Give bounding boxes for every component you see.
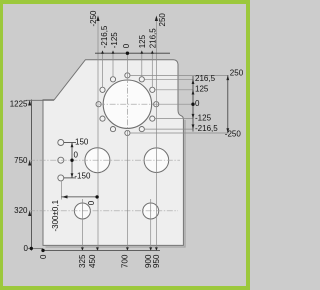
- svg-text:-125: -125: [110, 32, 119, 49]
- small hole 0: [58, 157, 64, 163]
- right arrow -250: [226, 128, 229, 133]
- stub row +150: [64, 142, 76, 144]
- bolt hole S: [125, 130, 130, 135]
- extension line x=150 column stub: [60, 181, 62, 200]
- svg-text:-300±0,1: -300±0,1: [51, 199, 60, 231]
- bore circle: [103, 80, 151, 128]
- extension line row +125: [155, 89, 193, 91]
- green frame: [0, 0, 250, 290]
- small hole +150: [58, 140, 64, 146]
- extension line row -125: [155, 118, 193, 120]
- svg-text:0: 0: [74, 150, 79, 159]
- bolt hole 210deg: [100, 116, 105, 121]
- svg-text:-216,5: -216,5: [195, 124, 218, 133]
- svg-text:0: 0: [87, 200, 96, 205]
- bolt hole N: [125, 73, 130, 78]
- extension line x=+216.5 bolt column: [151, 53, 153, 87]
- top zero dot: [126, 52, 129, 55]
- dim line +/-150: [71, 143, 73, 178]
- svg-text:-125: -125: [195, 114, 212, 123]
- arrow -250 top: [96, 16, 99, 22]
- centerline row 320: [29, 210, 178, 212]
- bolt hole 120deg: [110, 77, 115, 82]
- left chain arrow 750: [28, 160, 31, 166]
- bolt hole 330deg: [150, 116, 155, 121]
- svg-text:0: 0: [122, 43, 131, 48]
- svg-text:216,5: 216,5: [195, 74, 216, 83]
- svg-text:325: 325: [78, 254, 87, 268]
- left chain zero dot: [30, 247, 33, 250]
- top tick +125: [140, 50, 143, 53]
- svg-text:250: 250: [230, 69, 244, 78]
- left chain arrow 320: [28, 211, 31, 217]
- bolt hole 60deg: [139, 77, 144, 82]
- svg-text:0: 0: [39, 254, 48, 259]
- arrow -300: [62, 195, 68, 198]
- extension line x=-216.5 bolt column: [102, 53, 104, 87]
- top dimension baseline: [95, 52, 170, 54]
- extension line x=-125 bolt column: [112, 53, 114, 77]
- top tick -125: [112, 50, 115, 53]
- bottom tick 450: [96, 247, 99, 250]
- right arrow +125: [192, 90, 195, 95]
- right zero dot: [191, 103, 194, 106]
- extension line x=950 column: [155, 21, 157, 250]
- extension line row +250: [130, 74, 229, 76]
- bolt hole 30deg: [150, 87, 155, 92]
- svg-text:700: 700: [121, 254, 130, 268]
- bottom tick 700: [126, 247, 129, 250]
- arrow +250 top: [155, 16, 158, 22]
- bolt hole 300deg: [139, 127, 144, 132]
- right arrow -216.5: [192, 124, 195, 129]
- svg-text:250: 250: [158, 13, 167, 27]
- bore horizontal centerline: [99, 103, 153, 105]
- bolt hole 240deg: [110, 127, 115, 132]
- extension line row -250: [130, 132, 229, 134]
- left chain line: [31, 100, 33, 251]
- bolt hole 150deg: [100, 87, 105, 92]
- bottom tick 950: [155, 247, 158, 250]
- extension line x=700 column upper: [126, 53, 128, 77]
- extension line x=325 column: [81, 199, 83, 250]
- dot -300 datum: [95, 195, 98, 198]
- arrow -150: [71, 173, 74, 178]
- bore vertical centerline: [126, 77, 128, 132]
- part drop shadow: [46, 120, 186, 247]
- bolt hole W: [96, 102, 101, 107]
- svg-text:125: 125: [195, 85, 209, 94]
- svg-text:-250: -250: [225, 129, 242, 138]
- bottom zero dot: [41, 249, 44, 252]
- lower circle x=325: [74, 203, 90, 219]
- right outer dimension line: [227, 75, 229, 133]
- stub row -150: [64, 177, 76, 179]
- svg-text:0: 0: [195, 99, 200, 108]
- extension line x=700 column lower: [126, 131, 128, 250]
- right arrow -125: [192, 114, 195, 119]
- svg-text:125: 125: [138, 34, 147, 48]
- svg-text:-250: -250: [89, 10, 98, 27]
- bottom tick 900: [149, 247, 152, 250]
- top tick +216.5: [151, 50, 154, 53]
- extension line row +216.5: [144, 78, 193, 80]
- extension line x=450 column: [97, 20, 99, 250]
- bottom dimension baseline: [43, 249, 160, 251]
- svg-text:1225: 1225: [10, 99, 28, 108]
- top tick -216.5: [101, 50, 104, 53]
- lower circle x=900: [143, 203, 159, 219]
- centerline row 750: [29, 159, 180, 161]
- arrow +150: [71, 143, 74, 148]
- dot 0 of 150 dim: [70, 159, 73, 162]
- medium circle x=950: [144, 148, 169, 173]
- small hole -150: [58, 175, 64, 181]
- extension line row 0 (left axis): [28, 247, 43, 249]
- svg-text:-150: -150: [74, 171, 91, 180]
- dim line -300: [61, 196, 97, 198]
- svg-text:750: 750: [14, 156, 28, 165]
- svg-text:150: 150: [75, 138, 89, 147]
- bottom tick 325: [81, 247, 84, 250]
- bolt hole E: [154, 102, 159, 107]
- right arrow +250: [226, 75, 229, 80]
- right arrow +216.5: [192, 79, 195, 84]
- right dimension line: [192, 76, 194, 132]
- extension line row 0 (right): [152, 103, 193, 105]
- extension line x=+125 bolt column: [141, 53, 143, 77]
- extension line row -216.5: [144, 128, 193, 130]
- svg-text:320: 320: [14, 206, 28, 215]
- extension line row 1225: [26, 99, 54, 101]
- left chain arrow 1225: [28, 100, 31, 106]
- svg-text:216,5: 216,5: [148, 28, 157, 49]
- svg-text:-216,5: -216,5: [100, 25, 109, 48]
- extension line x=900 column: [150, 199, 152, 250]
- medium circle x=450: [85, 148, 110, 173]
- svg-text:950: 950: [152, 254, 161, 268]
- part outline: [43, 60, 183, 246]
- svg-text:450: 450: [88, 254, 97, 268]
- svg-text:0: 0: [24, 244, 29, 253]
